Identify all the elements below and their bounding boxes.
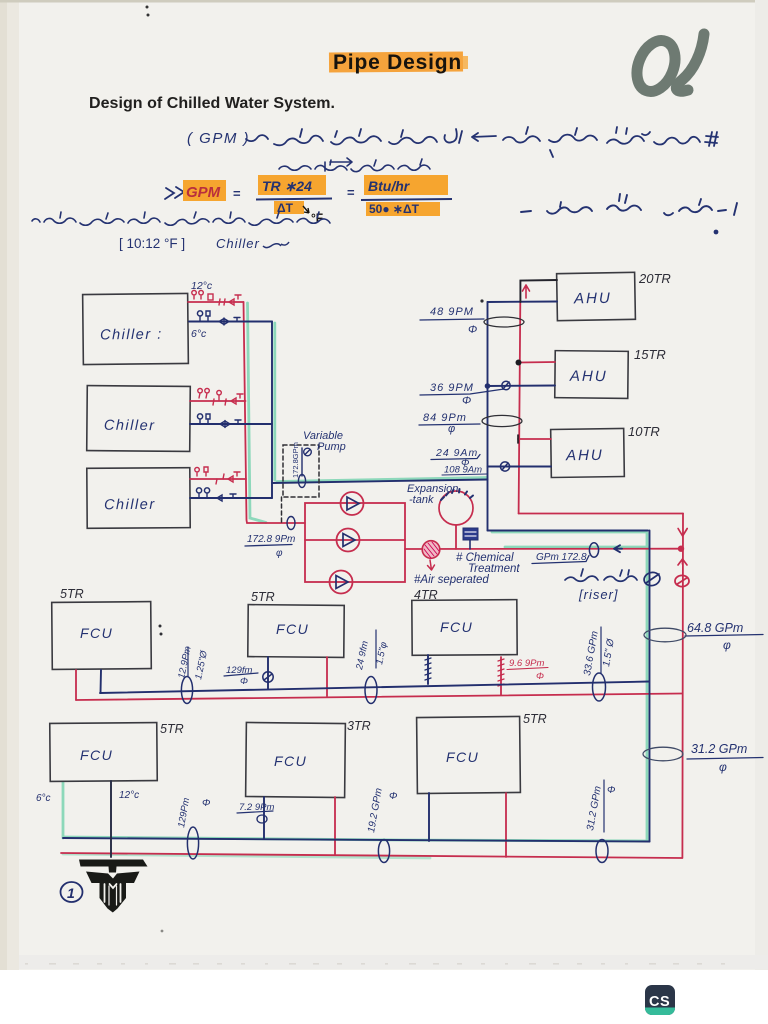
chiller2 hot pipe [190, 400, 246, 402]
svg-text:Φ: Φ [202, 798, 210, 809]
svg-text:Φ: Φ [389, 791, 397, 802]
svg-text:6°c: 6°c [36, 793, 51, 804]
AHU return bottom run [519, 513, 683, 515]
AHU2 red branch [519, 361, 556, 364]
svg-text:Chiller: Chiller [216, 236, 260, 251]
svg-text:172.8 9Pm: 172.8 9Pm [247, 534, 295, 545]
alpha mark [630, 34, 704, 97]
svg-text:31.2 GPm: 31.2 GPm [691, 742, 747, 756]
row2 ellipse 2 [378, 840, 389, 863]
FCU3 navy drop hatches [425, 658, 431, 680]
FCU5 red drop [334, 797, 336, 855]
fraction Btu/hr / 500*dT [364, 175, 448, 195]
row1 ellipse 3 [593, 673, 606, 701]
ellipse on return line [589, 543, 598, 557]
svg-text:Φ: Φ [240, 676, 248, 687]
svg-text:FCU: FCU [274, 753, 307, 769]
svg-text:CS: CS [649, 994, 670, 1010]
svg-text:=: = [347, 185, 355, 200]
svg-text:AHU: AHU [569, 368, 608, 385]
teal along row2 return [63, 854, 430, 858]
teal along return line mid [505, 546, 648, 549]
arabic right: item 1 [521, 194, 737, 234]
chiller box 1 [83, 293, 189, 364]
FCU1 red drop [75, 670, 77, 700]
teal highlighter underlays [63, 303, 648, 858]
valve circle AHU3 branch [500, 462, 509, 471]
formula: >> GPM = [165, 187, 184, 199]
chiller3 hot pipe gauges [195, 467, 240, 484]
chemical treatment symbol [463, 528, 478, 549]
svg-text:Φ: Φ [462, 395, 471, 407]
chiller1 hot pipe gauges [192, 290, 241, 305]
svg-text:5TR: 5TR [251, 590, 275, 604]
svg-text:48 9PM: 48 9PM [430, 306, 474, 318]
red up arrow at AHU drop [523, 285, 530, 298]
svg-text:20TR: 20TR [638, 271, 671, 286]
FCU box 5 [246, 722, 346, 797]
svg-text:Pump: Pump [317, 441, 346, 453]
AHU box 1 [557, 272, 636, 320]
svg-text:φ: φ [719, 760, 727, 774]
row1 ellipse 2 [365, 677, 377, 704]
pipe ellipse 84 [482, 415, 522, 426]
dashed drop to pump suction [281, 497, 283, 522]
FCU6 navy drop [428, 793, 430, 841]
variable pump dashed box [283, 445, 319, 497]
FCU1 navy drop [100, 670, 103, 693]
colon dots top [146, 6, 149, 9]
svg-text:AHU: AHU [565, 447, 604, 465]
black tick AHU3 branch [517, 435, 519, 443]
svg-text:Chiller :: Chiller : [100, 327, 163, 344]
svg-text:5TR: 5TR [60, 587, 84, 601]
red return header [244, 302, 306, 523]
circle on FCU2 drop [263, 672, 273, 682]
red pipes [61, 302, 683, 858]
FCU5 navy drop [263, 797, 265, 839]
svg-text:24 9Am: 24 9Am [435, 447, 478, 459]
svg-text:φ: φ [276, 548, 283, 559]
AHU supply riser [487, 302, 489, 531]
chiller2 chilled pipe [190, 423, 272, 425]
FCU2 navy drop [267, 657, 269, 689]
row1 red main [76, 694, 682, 701]
svg-text:AHU: AHU [573, 290, 612, 308]
FCU box 2 [248, 605, 344, 658]
chiller2 cold pipe gauges [197, 414, 241, 427]
riser down arrowhead [678, 529, 687, 537]
teal along top return to riser [492, 531, 646, 534]
MAIN DIAGRAM inserted below [36, 271, 763, 1015]
svg-text:TR ∗24: TR ∗24 [262, 178, 312, 194]
svg-text:Btu/hr: Btu/hr [368, 178, 411, 194]
junction dot AHU2 branch [516, 360, 522, 366]
chiller2 hot pipe gauges [198, 388, 243, 405]
FCU3 red drop [500, 657, 502, 695]
svg-text:64.8 GPm: 64.8 GPm [687, 621, 743, 635]
teal along riser [646, 533, 649, 841]
svg-text:5TR: 5TR [160, 722, 184, 736]
FCU box 3 [412, 600, 517, 656]
svg-text:84 9Pm: 84 9Pm [423, 412, 467, 424]
pump middle branch [305, 539, 405, 541]
AHU box 2 [555, 351, 628, 399]
svg-text:5TR: 5TR [523, 712, 547, 726]
dots near FCU1 [159, 625, 162, 628]
pump P1 [341, 492, 364, 515]
svg-text:Φ: Φ [536, 671, 544, 682]
svg-text:FCU: FCU [440, 619, 473, 635]
svg-text:( GPM ): ( GPM ) [187, 130, 250, 147]
svg-text:#Air seperated: #Air seperated [414, 574, 489, 586]
svg-text:Design of Chilled Water System: Design of Chilled Water System. [89, 95, 335, 112]
svg-text:50● ∗ΔT: 50● ∗ΔT [369, 202, 420, 216]
dot above [480, 299, 483, 302]
return arrow on mid line [614, 545, 622, 552]
riser note arabic [565, 569, 637, 581]
row2 red main [61, 853, 682, 858]
AHU box 3 [551, 428, 625, 477]
navy pipes [63, 280, 650, 857]
navy dot AHU2 junction [485, 383, 491, 389]
suction ellipse [287, 517, 295, 530]
fraction TR*24 / dT [258, 175, 326, 195]
svg-text:3TR: 3TR [347, 719, 371, 733]
CS badge [645, 985, 675, 1015]
AHU2 supply branch [488, 385, 556, 388]
teal along red header [248, 303, 267, 523]
chiller box 3 [87, 468, 190, 529]
title highlight [329, 52, 463, 73]
chiller box 2 [87, 386, 191, 452]
riser pipe ellipse 64 [644, 628, 686, 642]
valve circle AHU2 branch [502, 381, 510, 389]
svg-text:Φ: Φ [468, 324, 477, 336]
svg-text:10TR: 10TR [628, 424, 660, 439]
svg-text:Pipe Design: Pipe Design [333, 51, 462, 74]
teal along chilled supply header [273, 323, 276, 480]
svg-text:Φ: Φ [607, 785, 615, 796]
chiller3 chilled pipe [190, 497, 272, 499]
expansion tank stem [455, 525, 457, 549]
FCU3 navy drop [427, 655, 429, 684]
FCU4 dark drop [110, 781, 112, 857]
arabic line 3 (left) [32, 212, 330, 225]
FCU2 red drop [326, 657, 328, 696]
circled 1 [61, 882, 83, 902]
svg-text:Chiller: Chiller [104, 497, 156, 513]
svg-text:172.8GPm: 172.8GPm [291, 442, 300, 478]
row1 navy main [100, 682, 649, 694]
AHU3 supply branch [488, 466, 552, 468]
svg-text:1: 1 [67, 885, 75, 901]
teal drop FCU4 [62, 782, 65, 838]
svg-text:Treatment: Treatment [468, 563, 520, 575]
supply run to AHU riser [272, 480, 488, 484]
riser junction dot [678, 546, 684, 552]
riser up arrowhead [678, 559, 687, 565]
riser pipe ellipse 31 [643, 747, 683, 761]
AHU1 supply branch [488, 301, 558, 304]
svg-text:FCU: FCU [80, 625, 113, 641]
svg-text:[ 10:12 °F ]: [ 10:12 °F ] [119, 236, 185, 251]
chiller3 hot pipe [190, 478, 246, 480]
chilled supply header [271, 322, 273, 499]
chiller3 cold pipe gauges [196, 488, 238, 501]
svg-text:9.6 9Pm: 9.6 9Pm [509, 658, 544, 669]
svg-text:=: = [233, 186, 241, 201]
chiller1 chilled pipe [189, 321, 272, 323]
FCU box 6 [417, 716, 521, 793]
TM logo [79, 860, 148, 913]
chilled riser [649, 531, 651, 842]
svg-text:φ: φ [448, 423, 455, 435]
AHU1 top connection [520, 280, 557, 302]
FCU box 1 [52, 602, 152, 670]
AHU3 red branch [518, 438, 551, 440]
svg-text:Chiller: Chiller [104, 418, 156, 434]
row1 ellipse 1 [181, 677, 192, 704]
svg-text:[riser]: [riser] [578, 587, 619, 602]
top return run to riser [488, 530, 649, 532]
pump discharge line to riser [405, 548, 680, 550]
svg-text:-tank: -tank [409, 494, 434, 506]
teal along row2 supply [64, 837, 646, 841]
FCU box 4 [50, 723, 158, 782]
row2 ellipse 1 [187, 827, 198, 859]
AHU return drop pipe [519, 302, 521, 514]
svg-text:FCU: FCU [446, 749, 479, 765]
pump P3 [330, 571, 353, 594]
svg-text:36 9PM: 36 9PM [430, 382, 474, 394]
svg-text:FCU: FCU [276, 621, 309, 637]
FCU3 red drop hatches [498, 659, 504, 686]
pump skid box [305, 503, 405, 582]
row2 ellipse 3 [596, 840, 608, 863]
svg-text:φ: φ [723, 638, 731, 652]
pump P2 [337, 529, 360, 552]
red riser down [681, 514, 684, 859]
air separator [422, 541, 440, 570]
chiller1 hot pipe [188, 301, 244, 303]
svg-text:12°c: 12°c [119, 790, 139, 801]
expansion tank [439, 489, 473, 525]
navy crossed circle [643, 571, 662, 588]
arabic line 1 squiggles [246, 127, 718, 157]
FCU6 red drop [505, 793, 507, 857]
row2 navy main [63, 838, 650, 842]
svg-text:6°c: 6°c [191, 328, 207, 340]
variable pump internals [298, 448, 311, 488]
teal along supply horizontal [277, 478, 487, 482]
pipe ellipse 48 [484, 317, 524, 327]
svg-text:4TR: 4TR [414, 588, 438, 602]
svg-text:GPM: GPM [186, 184, 221, 201]
red valve circle on riser [675, 575, 689, 586]
svg-text:FCU: FCU [80, 747, 113, 763]
svg-text:15TR: 15TR [634, 347, 666, 362]
chiller1 cold pipe gauges [197, 311, 240, 325]
arabic line 2 + hook arrow [279, 158, 430, 172]
